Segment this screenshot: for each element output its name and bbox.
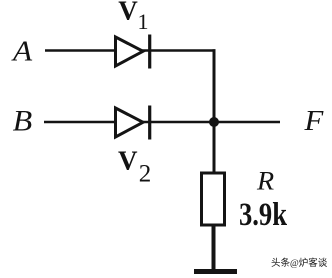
svg-text:V: V [118, 145, 138, 175]
svg-text:2: 2 [139, 160, 152, 187]
svg-text:1: 1 [138, 9, 149, 34]
svg-text:3.9k: 3.9k [239, 197, 288, 233]
svg-text:F: F [303, 106, 324, 136]
svg-text:B: B [13, 103, 33, 137]
svg-text:头条@炉客谈: 头条@炉客谈 [271, 257, 328, 269]
svg-text:V: V [118, 0, 138, 25]
svg-text:A: A [11, 37, 33, 67]
svg-text:R: R [256, 167, 275, 196]
